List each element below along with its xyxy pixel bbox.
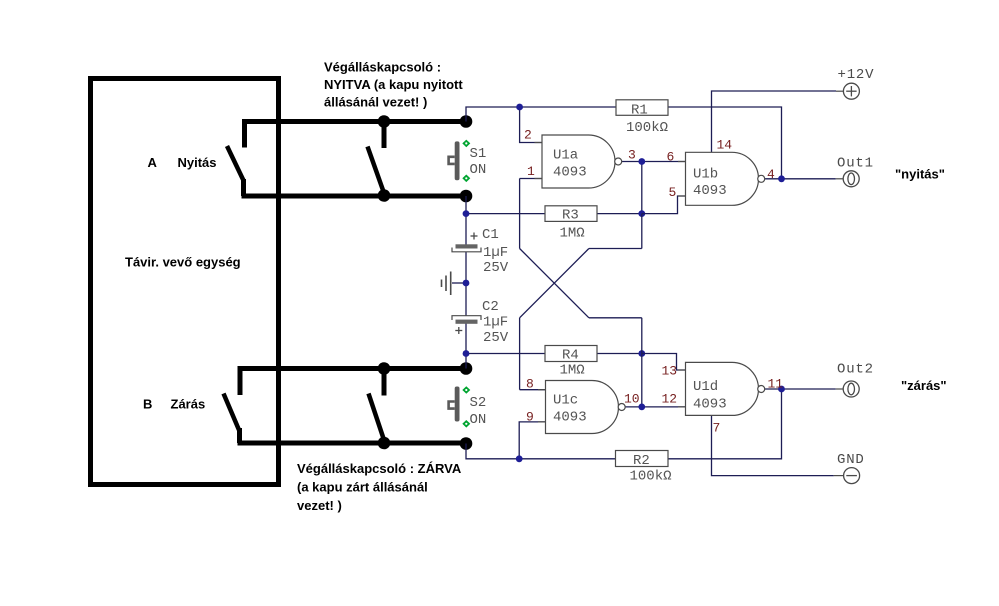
svg-text:25V: 25V — [483, 330, 509, 346]
relay contact A2 — [368, 122, 385, 194]
wire: pin 2 drop from top rail — [520, 107, 542, 143]
junction: S2 bottom terminal (black) — [460, 437, 473, 450]
wire: pin 8 vertical — [519, 318, 521, 390]
junction: B2 top (black) — [378, 362, 391, 375]
junction: node at (519.2,458.8) — [516, 455, 523, 462]
svg-text:állásánál vezet! ): állásánál vezet! ) — [324, 95, 427, 110]
node +12V terminal — [836, 83, 859, 99]
label: S1 ON — [470, 146, 487, 178]
node Out1 terminal — [836, 171, 859, 187]
wire: C2 bottom to R4 rail — [465, 324, 467, 369]
svg-text:1: 1 — [527, 164, 535, 179]
svg-text:1µF: 1µF — [483, 315, 508, 331]
junction: U1a output node — [638, 158, 645, 165]
svg-text:4093: 4093 — [553, 410, 587, 426]
annotation: Végálláskapcsoló NYITVA note — [324, 60, 463, 110]
wire: R3 node down — [641, 214, 643, 249]
label: R1 100kΩ — [626, 103, 668, 137]
pushbutton S1 — [449, 140, 471, 183]
svg-text:+12V: +12V — [838, 67, 875, 83]
capacitor C2 — [452, 316, 481, 334]
resistor R1 — [616, 100, 668, 116]
wire: R3 left rail — [466, 213, 545, 215]
junction: U1c output node — [638, 404, 645, 411]
junction: S2 top terminal (black) — [460, 362, 473, 375]
svg-text:C2: C2 — [482, 299, 499, 315]
svg-text:S1: S1 — [470, 146, 487, 162]
node GND terminal — [834, 468, 860, 484]
wire: C1 bottom to ground node — [465, 252, 467, 316]
svg-text:Végálláskapcsoló :: Végálláskapcsoló : — [324, 60, 441, 75]
label: U1c 4093 — [553, 393, 587, 426]
annotation: Végálláskapcsoló ZÁRVA note — [297, 461, 462, 513]
label: R2 100kΩ — [630, 453, 672, 485]
wire: U1d output to Out2 terminal — [764, 388, 835, 390]
wire: thick A bottom (relay A to S1 bottom) — [242, 194, 467, 199]
svg-text:S2: S2 — [470, 395, 487, 411]
svg-text:14: 14 — [717, 138, 733, 153]
svg-text:10: 10 — [624, 392, 640, 407]
svg-text:25V: 25V — [483, 260, 509, 276]
junction: node at (466,353.5) — [463, 350, 470, 357]
resistor R4 — [545, 346, 597, 362]
label: U1a 4093 — [553, 148, 587, 181]
junction: ground node — [463, 280, 470, 287]
svg-text:13: 13 — [662, 364, 678, 379]
svg-text:100kΩ: 100kΩ — [630, 469, 672, 485]
wire: down to R4 right node — [641, 318, 643, 354]
wire: U1b pin 14 to +12V — [712, 91, 837, 152]
svg-text:GND: GND — [837, 452, 865, 468]
svg-text:NYITVA (a kapu nyitott: NYITVA (a kapu nyitott — [324, 77, 463, 92]
resistor R2 — [616, 451, 669, 467]
junction: R4 right node — [638, 350, 645, 357]
box: Távir. vevő egység receiver unit — [91, 79, 279, 485]
svg-text:ON: ON — [470, 412, 487, 428]
svg-text:R1: R1 — [631, 103, 648, 119]
wire: U1c output to junction — [625, 406, 642, 408]
junction: node at (466,213.6) — [463, 210, 470, 217]
svg-text:2: 2 — [524, 128, 532, 143]
label: C2 1µF 25V — [482, 299, 509, 346]
junction: U1b output node — [778, 175, 785, 182]
wire: horizontal left on U1a-out net — [589, 248, 642, 250]
wire: U1a pin 1 — [520, 178, 542, 180]
op-amp U1b (NAND gate 4093) — [678, 152, 765, 205]
wire: thick B top (relay B to S2 top) — [238, 366, 467, 371]
svg-text:4093: 4093 — [693, 397, 727, 413]
svg-text:1MΩ: 1MΩ — [560, 226, 585, 242]
svg-text:R2: R2 — [633, 453, 650, 469]
svg-text:U1b: U1b — [693, 167, 718, 183]
svg-text:Out2: Out2 — [837, 362, 874, 378]
svg-text:vezet! ): vezet! ) — [297, 498, 342, 513]
label: R4 1MΩ — [560, 348, 585, 379]
svg-text:"zárás": "zárás" — [901, 378, 947, 393]
svg-text:4: 4 — [767, 167, 775, 182]
op-amp U1c (NAND gate 4093) — [538, 381, 625, 434]
svg-text:3: 3 — [628, 148, 636, 163]
svg-text:C1: C1 — [482, 227, 499, 243]
svg-text:U1d: U1d — [693, 379, 718, 395]
wire: ground stub — [452, 282, 466, 284]
wire: S1 top to R1 left rail — [466, 107, 616, 122]
wire: R4 left rail — [466, 353, 545, 355]
wire: thick A top (relay A to S1 top) — [242, 119, 466, 124]
wire: R4 node down to U1c output node — [641, 354, 643, 407]
pushbutton S2 — [449, 386, 471, 427]
op-amp U1d (NAND gate 4093) — [678, 362, 765, 415]
label: R3 1MΩ — [560, 208, 585, 242]
op-amp U1a (NAND gate 4093) — [535, 135, 622, 188]
wire: S1 bottom down to R3 rail — [465, 196, 467, 245]
svg-text:5: 5 — [669, 185, 677, 200]
wire: U1d pin 7 to GND terminal — [712, 415, 834, 475]
svg-text:1µF: 1µF — [483, 245, 508, 261]
svg-text:A: A — [148, 155, 158, 170]
relay contact B2 — [369, 369, 385, 441]
wire: junction to U1d pin 12 — [642, 406, 686, 408]
wire: R2 right up to Out2 node — [668, 389, 782, 459]
label: U1d 4093 — [693, 379, 727, 413]
wire: R4 right to junction — [597, 353, 642, 355]
svg-text:R4: R4 — [562, 348, 579, 364]
junction: B2 bottom (black) — [378, 437, 391, 450]
junction: A2 bottom (black) — [378, 189, 391, 202]
wire: R3 node to U1b pin 5 — [642, 196, 686, 214]
junction: U1d output node — [778, 386, 785, 393]
relay contact B1 — [224, 369, 241, 444]
wire: R3 right to junction — [597, 213, 642, 215]
svg-text:(a kapu zárt állásánál: (a kapu zárt állásánál — [297, 480, 428, 495]
svg-text:ON: ON — [470, 162, 487, 178]
wire: cross diagonal U1a-out net to pin 8 — [520, 249, 589, 318]
wire: cross diagonal pin1 to U1c-out net — [520, 249, 589, 318]
wire: junction to U1b pin 6 — [642, 161, 686, 163]
wire: U1a output to junction — [621, 161, 641, 163]
label: S2 ON — [470, 395, 487, 428]
junction: S1 bottom terminal (black) — [460, 190, 473, 203]
label: U1b 4093 — [693, 167, 727, 200]
wire: S2 bottom to R2 left rail — [466, 444, 616, 459]
svg-text:12: 12 — [662, 392, 678, 407]
svg-text:Távir. vevő egység: Távir. vevő egység — [125, 255, 241, 270]
svg-text:U1c: U1c — [553, 393, 578, 409]
svg-text:Nyitás: Nyitás — [178, 155, 217, 170]
svg-text:6: 6 — [667, 150, 675, 165]
svg-text:8: 8 — [526, 377, 534, 392]
node Out2 terminal — [836, 381, 859, 397]
relay contact A1 — [227, 122, 245, 197]
wire: horizontal to R4 node column — [589, 317, 642, 319]
wire: R1 right to U1b output junction — [668, 107, 782, 179]
svg-text:Out1: Out1 — [837, 156, 874, 172]
capacitor C1 — [452, 233, 481, 252]
svg-text:1MΩ: 1MΩ — [560, 363, 585, 379]
junction: A2 top (black) — [378, 115, 391, 128]
wire: U1b output to Out1 terminal — [764, 178, 835, 180]
svg-text:4093: 4093 — [553, 165, 587, 181]
svg-text:Zárás: Zárás — [171, 397, 206, 412]
wire: pin 1 vertical — [519, 179, 521, 249]
wire: U1c pin 8 — [520, 389, 546, 391]
svg-text:4093: 4093 — [693, 183, 727, 199]
junction: R3 right node — [638, 210, 645, 217]
wire: R4 node to U1d pin 13 — [642, 354, 686, 371]
svg-text:"nyitás": "nyitás" — [895, 167, 945, 182]
svg-text:9: 9 — [526, 410, 534, 425]
svg-text:R3: R3 — [562, 208, 579, 224]
wire: U1a output down to R3 right — [641, 162, 643, 214]
ground — [442, 272, 451, 296]
resistor R3 — [545, 206, 597, 222]
svg-text:100kΩ: 100kΩ — [626, 120, 668, 136]
label: C1 1µF 25V — [482, 227, 509, 276]
wire: thick B bottom (relay B to S2 bottom) — [238, 441, 467, 446]
junction: node at (519.6,107) — [516, 104, 523, 111]
svg-text:11: 11 — [768, 377, 784, 392]
svg-text:7: 7 — [713, 421, 721, 436]
junction: S1 top terminal (black) — [460, 115, 473, 128]
wire: pin 9 riser — [519, 422, 545, 459]
svg-text:U1a: U1a — [553, 148, 578, 164]
svg-text:Végálláskapcsoló : ZÁRVA: Végálláskapcsoló : ZÁRVA — [297, 461, 462, 476]
svg-text:B: B — [143, 397, 152, 412]
